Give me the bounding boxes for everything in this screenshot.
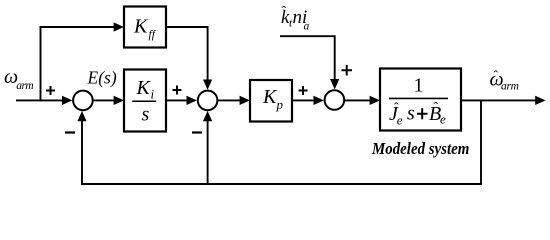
plus sign summer3 top <box>342 65 353 76</box>
arrowhead into Kff <box>114 22 124 31</box>
svg-text:Modeled system: Modeled system <box>371 140 469 158</box>
svg-text:a: a <box>304 21 310 33</box>
svg-text:p: p <box>276 97 284 112</box>
summer 3 <box>325 90 345 110</box>
svg-text:i: i <box>151 87 155 102</box>
svg-text:K: K <box>133 16 149 38</box>
arrowhead into Ki block <box>114 96 124 105</box>
wire summer2 to Kp <box>218 99 242 101</box>
fraction bar plant <box>389 97 448 99</box>
svg-text:arm: arm <box>16 80 33 92</box>
summer 1 <box>73 91 93 111</box>
minus sign summer1 <box>65 131 75 133</box>
svg-text:E(s): E(s) <box>87 67 117 87</box>
arrowhead into Kp <box>240 96 250 105</box>
wire plant to output <box>461 99 537 101</box>
summer 2 <box>198 91 218 111</box>
arrowhead into summer3 top <box>330 79 339 89</box>
block Kp <box>250 80 292 122</box>
svg-text:e: e <box>397 112 403 127</box>
svg-text:s: s <box>407 103 415 125</box>
wire feedback riser to summer2 <box>207 119 209 185</box>
wire Kp to summer3 <box>292 99 316 101</box>
wire feedback bottom <box>81 183 482 185</box>
svg-text:K: K <box>136 77 152 99</box>
minus sign summer2 <box>192 131 202 133</box>
wire horizontal into Kff <box>40 26 117 28</box>
arrowhead into summer2 top <box>203 80 212 90</box>
svg-text:ˆ: ˆ <box>282 5 287 20</box>
wire Ki block to summer2 <box>166 99 189 101</box>
arrowhead into summer3 left <box>314 96 324 105</box>
plus sign summer1 <box>46 86 55 95</box>
block plant (modeled system) <box>380 69 461 131</box>
svg-text:e: e <box>440 112 446 127</box>
wire output feedback branch vertical <box>480 100 482 185</box>
svg-text:s: s <box>142 104 150 126</box>
plus sign summer2 <box>173 86 182 95</box>
svg-text:ˆ: ˆ <box>434 101 439 116</box>
arrowhead output <box>535 96 545 105</box>
arrowhead into summer1 <box>62 96 72 105</box>
wire input horizontal <box>16 99 64 101</box>
wire summer1 to Ki block <box>92 99 116 101</box>
wire summer3 to plant <box>345 99 372 101</box>
arrowhead into summer2 left <box>187 96 197 105</box>
svg-text:ˆ: ˆ <box>494 69 499 84</box>
svg-text:1: 1 <box>414 75 424 97</box>
arrowhead into plant <box>370 96 380 105</box>
wire disturbance input top <box>280 36 335 82</box>
fraction bar Ki/s <box>132 100 156 102</box>
wire branch vertical to feedforward <box>40 26 42 101</box>
block Ki/s <box>124 70 166 132</box>
svg-text:arm: arm <box>501 81 519 93</box>
arrowhead into summer2 bottom <box>203 111 212 121</box>
wire feedback riser to summer1 <box>81 119 83 185</box>
plus sign summer3 left <box>299 86 308 95</box>
block Kff <box>124 7 166 48</box>
arrowhead into summer1 bottom <box>77 111 86 121</box>
wire Kff output <box>166 27 208 82</box>
